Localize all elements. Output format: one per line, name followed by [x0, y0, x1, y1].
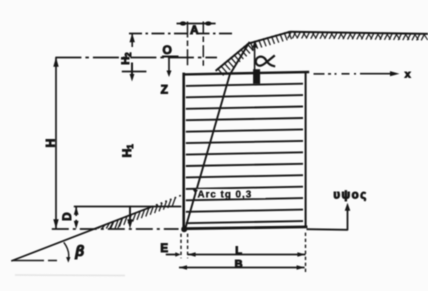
svg-text:β: β: [74, 244, 84, 260]
svg-text:A: A: [190, 23, 199, 37]
svg-text:D: D: [62, 212, 74, 220]
svg-text:υψος: υψος: [333, 190, 367, 202]
svg-text:H: H: [43, 139, 57, 148]
svg-text:x: x: [405, 69, 411, 81]
svg-text:Arc tg 0,3: Arc tg 0,3: [198, 190, 253, 201]
svg-text:Z: Z: [161, 82, 168, 96]
svg-text:L: L: [235, 245, 242, 257]
svg-text:O: O: [163, 43, 172, 57]
svg-text:B: B: [235, 258, 243, 270]
svg-text:E: E: [160, 243, 168, 255]
